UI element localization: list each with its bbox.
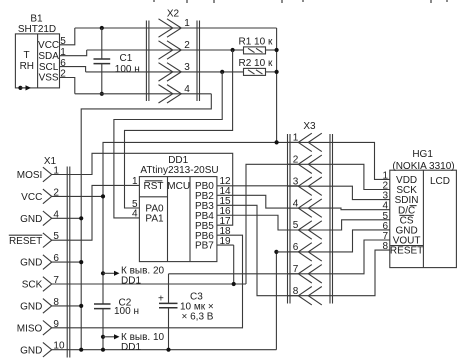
X3 pin 3 bbox=[298, 177, 312, 195]
X2 pin 4 bbox=[159, 85, 173, 103]
wire GND bottom bbox=[52, 349, 277, 351]
wire SCL bbox=[86, 71, 223, 73]
X3 pin 7 through-wire bbox=[288, 273, 333, 275]
X3 pin 8 through-wire bbox=[288, 295, 333, 297]
wire PB0 to X3.3 bbox=[217, 185, 299, 187]
wire GND stub p8 bbox=[52, 305, 82, 307]
node GND bus bbox=[79, 216, 83, 220]
X3 pin 1 bbox=[298, 133, 312, 151]
svg-text:GND: GND bbox=[20, 302, 42, 313]
wire MOSI bbox=[52, 153, 233, 225]
wire VCC top bbox=[75, 27, 277, 29]
svg-text:4: 4 bbox=[184, 84, 190, 95]
X2 pin 3 bbox=[159, 63, 173, 81]
decorative bbox=[153, 0, 155, 2]
capacitor C2 bbox=[94, 303, 111, 305]
svg-text:MOSI: MOSI bbox=[17, 170, 43, 181]
svg-text:PA1: PA1 bbox=[145, 213, 164, 224]
X1 pin 8 GND bbox=[43, 299, 52, 314]
wire MISO bbox=[52, 235, 243, 328]
svg-text:X3: X3 bbox=[303, 121, 316, 132]
wire X3.7 to HG1.7 bbox=[333, 240, 390, 274]
svg-text:GND: GND bbox=[20, 258, 42, 269]
X1 pin 9 MISO bbox=[43, 321, 52, 336]
node C1 top bbox=[100, 26, 104, 30]
wire SDA bbox=[87, 49, 233, 51]
svg-text:X2: X2 bbox=[167, 9, 180, 20]
LCD HG1 NOKIA 3310 bbox=[390, 149, 457, 267]
wire X3.8 to HG1.8 bbox=[333, 250, 390, 296]
svg-text:HG1: HG1 bbox=[412, 149, 433, 160]
wire PB7 pin19 bbox=[217, 244, 234, 246]
X3 pin 6 bbox=[298, 243, 312, 261]
capacitor C1 bbox=[101, 28, 103, 59]
svg-text:SCK: SCK bbox=[22, 280, 43, 291]
svg-text:R2 10 к: R2 10 к bbox=[239, 58, 273, 69]
sensor B1 SHT21D bbox=[15, 14, 59, 88]
wire RESET bbox=[52, 185, 140, 240]
wire SCK bbox=[52, 283, 247, 285]
wire PB2 to X3.4 bbox=[217, 195, 299, 208]
svg-text:MISO: MISO bbox=[17, 323, 43, 334]
svg-text:RESET: RESET bbox=[390, 246, 423, 257]
X3 pin 7 bbox=[298, 265, 312, 283]
svg-text:8: 8 bbox=[382, 241, 388, 252]
svg-text:GND: GND bbox=[20, 214, 42, 225]
svg-text:SCL: SCL bbox=[39, 62, 59, 73]
wire X3.2 to HG1.2 bbox=[333, 164, 390, 189]
X3 pin 5 through-wire bbox=[288, 229, 333, 231]
svg-text:R1 10 к: R1 10 к bbox=[239, 36, 273, 47]
svg-text:GND: GND bbox=[20, 345, 42, 356]
svg-text:VCC: VCC bbox=[21, 192, 42, 203]
wire X3.6 to HG1.6 bbox=[333, 230, 390, 252]
wire VCC to X3.1 bbox=[103, 142, 299, 304]
wire VCC right riser bbox=[276, 28, 278, 142]
node C1 bottom bbox=[100, 92, 104, 96]
wire C3 to X3.7 bbox=[169, 273, 300, 275]
svg-text:MCU: MCU bbox=[167, 181, 190, 192]
svg-text:C1: C1 bbox=[120, 53, 133, 64]
X1 pin 4 GND bbox=[43, 211, 52, 226]
wire X3.1 to HG1.1 bbox=[333, 142, 390, 179]
svg-text:3: 3 bbox=[184, 62, 190, 73]
svg-text:4: 4 bbox=[132, 209, 138, 220]
X3 pin 4 bbox=[298, 199, 312, 217]
X1 pin 2 VCC bbox=[43, 189, 52, 204]
X3 pin 6 through-wire bbox=[288, 251, 333, 253]
svg-text:PB7: PB7 bbox=[195, 241, 214, 252]
node K vyv 10 DD1 bbox=[101, 335, 105, 339]
svg-text:LCD: LCD bbox=[430, 176, 450, 187]
wire VCC stub X1 bbox=[52, 195, 104, 197]
X1 pin 5 RESET bbox=[43, 233, 52, 248]
svg-text:RH: RH bbox=[20, 61, 34, 72]
X1 pin 6 GND bbox=[43, 255, 52, 270]
wire X3.2 riser bbox=[246, 164, 298, 284]
wire X3.4 to HG1.4 bbox=[333, 208, 390, 210]
X3 pin 8 bbox=[298, 287, 312, 305]
svg-text:DD1: DD1 bbox=[121, 342, 141, 353]
svg-text:ATtiny2313-20SU: ATtiny2313-20SU bbox=[140, 165, 218, 176]
X3 pin 3 through-wire bbox=[288, 185, 333, 187]
svg-text:VSS: VSS bbox=[39, 73, 59, 84]
X2 pin 2 bbox=[159, 41, 173, 59]
HG1 D/C overline bbox=[410, 205, 417, 207]
node K vyv 20 DD1 bbox=[101, 271, 105, 275]
svg-text:100 н: 100 н bbox=[115, 64, 140, 75]
svg-text:100 н: 100 н bbox=[114, 306, 139, 317]
svg-text:RESET: RESET bbox=[9, 236, 42, 247]
X1 pin 1 MOSI bbox=[43, 167, 52, 182]
wire GND stub p4 bbox=[52, 217, 82, 219]
wire GND riser X3.6 bbox=[275, 252, 277, 350]
X1 pin 7 SCK bbox=[43, 277, 52, 292]
svg-text:VCC: VCC bbox=[38, 40, 59, 51]
HG1 CS overline bbox=[399, 214, 413, 216]
svg-text:2: 2 bbox=[184, 40, 190, 51]
wire SDA to PA0 bbox=[125, 50, 233, 208]
svg-text:SDA: SDA bbox=[38, 51, 59, 62]
X3 pin 1 through-wire bbox=[288, 141, 333, 143]
HG1 RESET overline bbox=[390, 245, 423, 247]
wire GND stub p6 bbox=[52, 261, 82, 263]
svg-text:× 6,3 В: × 6,3 В bbox=[182, 311, 214, 322]
X2 pin 1 bbox=[159, 19, 173, 37]
wire X3.3 to HG1.3 bbox=[333, 186, 390, 199]
svg-text:RST: RST bbox=[144, 181, 164, 192]
wire PB3 to X3.8 bbox=[217, 205, 299, 295]
B1 substrate arrow bbox=[18, 86, 22, 90]
svg-text:1: 1 bbox=[132, 176, 138, 187]
X3 pin 5 bbox=[298, 221, 312, 239]
svg-text:SHT21D: SHT21D bbox=[18, 24, 56, 35]
MCU DD1 ATtiny2313-20SU bbox=[139, 155, 218, 262]
wire SCL to PA1 bbox=[114, 72, 222, 218]
svg-text:1: 1 bbox=[184, 18, 190, 29]
svg-text:T: T bbox=[24, 50, 30, 61]
X3 pin 2 through-wire bbox=[288, 163, 333, 165]
wire PB4 to X3.5 bbox=[217, 215, 299, 230]
wire GND top route bbox=[75, 93, 212, 95]
X3 pin 2 bbox=[298, 155, 312, 173]
X1 RESET overline bbox=[9, 234, 42, 236]
wire X3.5 to HG1.5 bbox=[333, 220, 390, 230]
X3 pin 4 through-wire bbox=[288, 207, 333, 209]
svg-text:DD1: DD1 bbox=[121, 275, 141, 286]
X1 pin 10 GND bbox=[43, 342, 52, 357]
